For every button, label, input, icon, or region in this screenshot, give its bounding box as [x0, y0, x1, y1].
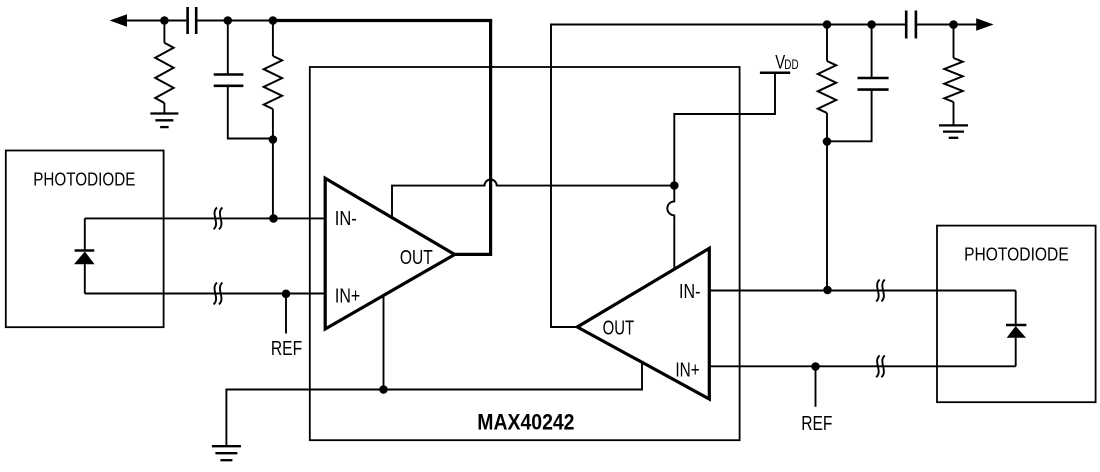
wire REF stub (right): [815, 367, 817, 407]
wire thick feedback OUT1 to top network: [273, 21, 491, 255]
output arrow left: [110, 14, 127, 27]
junction C3 / top-right wire: [867, 20, 876, 29]
junction R2/C2 bottom: [269, 135, 278, 144]
resistor R1 bottom lead: [163, 103, 165, 114]
junction OUT2 feedback / R3: [823, 20, 832, 29]
svg-text:IN+: IN+: [675, 358, 699, 381]
photodiode D1: [84, 218, 86, 251]
junction op1 V- on ground bus: [379, 385, 388, 394]
svg-text:PHOTODIODE: PHOTODIODE: [964, 243, 1069, 265]
output arrow right: [976, 18, 993, 31]
wire VDD to internal node: [674, 74, 775, 186]
wire IN- input (right): [709, 290, 1015, 292]
svg-text:MAX40242: MAX40242: [477, 410, 574, 435]
junction R1 / top wire: [160, 16, 169, 25]
junction R2-feedback / top wire: [269, 16, 278, 25]
svg-text:OUT: OUT: [400, 245, 433, 269]
ground (below R4): [939, 124, 968, 126]
resistor R3 bottom lead: [826, 113, 828, 142]
wire top-left to C1: [120, 20, 186, 22]
resistor R4 top lead: [953, 25, 955, 59]
wire ground bus to op2 V-: [226, 363, 642, 447]
wire C4 to arrow: [917, 24, 980, 26]
wire break on IN- input (left): [214, 208, 217, 230]
wire C2 bottom to R2 node: [228, 86, 273, 139]
photodiode box (left): [6, 151, 164, 328]
wire IN- input (left): [85, 217, 325, 219]
op-amp U1A: [325, 178, 455, 329]
capacitor C2 (left feedback cap): [214, 73, 244, 76]
resistor R2 bottom lead: [272, 109, 274, 140]
svg-text:IN+: IN+: [335, 283, 360, 306]
svg-text:IN-: IN-: [679, 279, 700, 302]
resistor R4 bottom lead: [953, 102, 955, 125]
wire feedback node to IN- wire: [272, 140, 274, 219]
ground (bottom, REF bus): [212, 445, 241, 447]
junction feedback to IN- (right): [823, 286, 832, 295]
wire OUT2 feedback loop: [551, 25, 827, 328]
wire hop below node (vertical, bulge left): [667, 186, 674, 270]
wire IN+ input (left): [85, 293, 325, 295]
junction R4 / top-right wire: [949, 20, 958, 29]
IC boundary box MAX40242: [310, 67, 740, 440]
resistor R4 (right output load): [944, 58, 962, 102]
ground (below R1): [150, 112, 178, 114]
resistor R1 top lead: [163, 21, 165, 43]
svg-text:REF: REF: [271, 336, 302, 360]
resistor R1 (left output load): [155, 43, 173, 103]
junction REF on IN+ (left): [282, 290, 291, 299]
wire C1 to feedback node: [198, 20, 273, 22]
resistor R2 (left feedback): [264, 56, 282, 109]
capacitor C3 top lead: [871, 25, 873, 79]
wire break on IN- input (right): [876, 280, 879, 302]
resistor R2 top lead: [272, 21, 274, 57]
wire break on IN+ input (left): [214, 283, 217, 305]
svg-text:OUT: OUT: [603, 316, 635, 339]
wire IN+ input (right): [709, 365, 1015, 367]
VDD supply symbol: [760, 71, 790, 74]
svg-text:DD: DD: [784, 56, 798, 72]
resistor R3 (right feedback): [818, 61, 836, 113]
junction VDD tap / op2 IN- path: [670, 181, 679, 190]
junction REF on IN+ (right): [811, 362, 820, 371]
wire feedback node down to IN- (right): [826, 142, 828, 291]
junction feedback to IN- (left): [269, 214, 278, 223]
wire C3 bottom to R3 node: [827, 90, 872, 142]
resistor R3 top lead: [826, 25, 828, 62]
capacitor C4 (series coupling, right): [905, 11, 908, 39]
wire REF stub (left): [285, 294, 287, 334]
wire op1 V- tap down: [383, 296, 385, 390]
capacitor C3 (right feedback cap): [858, 77, 889, 80]
svg-text:PHOTODIODE: PHOTODIODE: [33, 168, 135, 190]
photodiode box (right): [937, 226, 1096, 403]
junction C2 / top wire: [224, 16, 233, 25]
wire break on IN+ input (right): [876, 355, 879, 377]
wire OUT1 top tap across (hop over feedback): [392, 180, 674, 218]
capacitor C1 (series coupling, left): [186, 7, 189, 34]
capacitor C2 top lead: [227, 21, 229, 75]
svg-text:REF: REF: [801, 411, 832, 435]
svg-text:IN-: IN-: [335, 206, 357, 229]
wire top-right: node to C4: [827, 24, 906, 26]
junction R3/C3 bottom: [823, 137, 832, 146]
photodiode D2: [1015, 291, 1017, 326]
op-amp U1B: [577, 248, 709, 399]
